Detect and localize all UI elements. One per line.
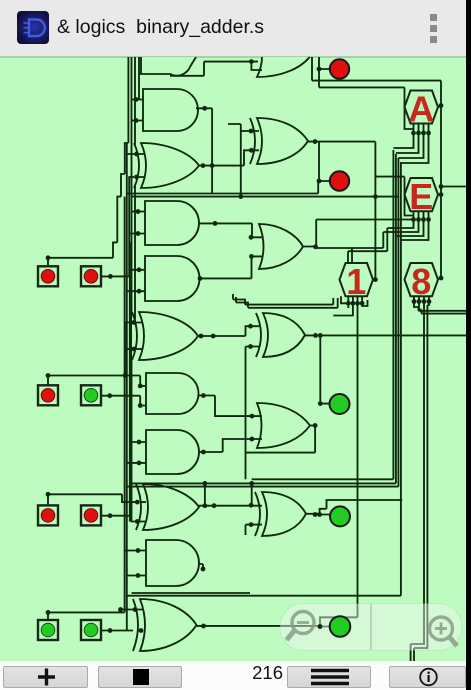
XOR gate U13 [250, 118, 308, 164]
wire slice0 outputs [170, 62, 262, 197]
bottom bar [0, 661, 471, 690]
switch SW1 input A0 [38, 266, 58, 286]
zoom control overlay pill [280, 604, 462, 651]
switch SW8 input B3 [81, 620, 101, 640]
wire row3 switch feeders [48, 494, 146, 521]
LED D4 green [330, 506, 350, 526]
AND gate U1 top (partial) [141, 53, 196, 76]
wire display E pins [316, 106, 466, 279]
LED D1 carry red [330, 59, 349, 78]
svg-text:E: E [409, 176, 433, 217]
AND gate U4 [145, 201, 199, 245]
wire long pair y193-196 [127, 182, 399, 197]
wire slice3 outputs [197, 564, 358, 627]
app icon [17, 11, 49, 44]
wire long horizontals right [127, 294, 466, 593]
OR gate U12 top (partial) [257, 36, 310, 77]
7-segment display DS1 digit A [405, 89, 439, 130]
XOR gate U17 [255, 492, 306, 536]
wire left bus verticals [113, 57, 139, 630]
7-segment display DS4 digit 8 [405, 261, 439, 302]
switch SW2 input B0 [81, 266, 101, 286]
wire gate input stubs [125, 100, 146, 576]
AND gate U7 [146, 373, 198, 414]
switch SW4 input B1 [81, 385, 101, 405]
svg-text:8: 8 [411, 261, 431, 302]
XOR gate U15 [256, 313, 305, 357]
wire slice2 outputs [199, 335, 466, 535]
wire row1 switch feeders [48, 177, 144, 276]
AND gate U8 [146, 430, 199, 474]
switch SW5 input A2 [38, 505, 58, 525]
app bar [0, 0, 471, 56]
wire display A pins [393, 107, 441, 163]
wire display 1 pins [333, 296, 367, 617]
LED D3 green [330, 394, 350, 414]
right screen edge [466, 0, 471, 690]
wire row2 switch feeders [48, 323, 146, 406]
wire slice1 outputs [198, 220, 387, 480]
OR gate U14 [259, 224, 303, 269]
XOR gate U6 [132, 312, 198, 360]
wire row4 switch feeders [48, 610, 143, 631]
svg-text:A: A [408, 89, 434, 130]
LED D5 green (over pill) [318, 616, 351, 637]
AND gate U2 [143, 89, 198, 131]
7-segment display DS3 digit 1 [340, 261, 374, 302]
overflow menu [429, 12, 439, 46]
AND gate U10 [146, 540, 199, 586]
XOR gate U11 [133, 599, 197, 651]
XOR gate U9 [136, 484, 199, 530]
LED D2 red [330, 171, 349, 190]
AND gate U5 [145, 256, 200, 301]
svg-text:1: 1 [346, 261, 366, 302]
wire bundle verticals below E [127, 142, 401, 596]
wire display 8 pins [411, 296, 429, 661]
7-segment display DS2 digit E [405, 176, 439, 217]
OR gate U16 [257, 403, 310, 448]
switch SW6 input B2 [81, 505, 101, 525]
switch SW3 input A1 [38, 385, 58, 405]
XOR gate U3 [134, 143, 199, 188]
wire red LED nets [308, 57, 441, 181]
switch SW7 input A3 [38, 620, 58, 640]
